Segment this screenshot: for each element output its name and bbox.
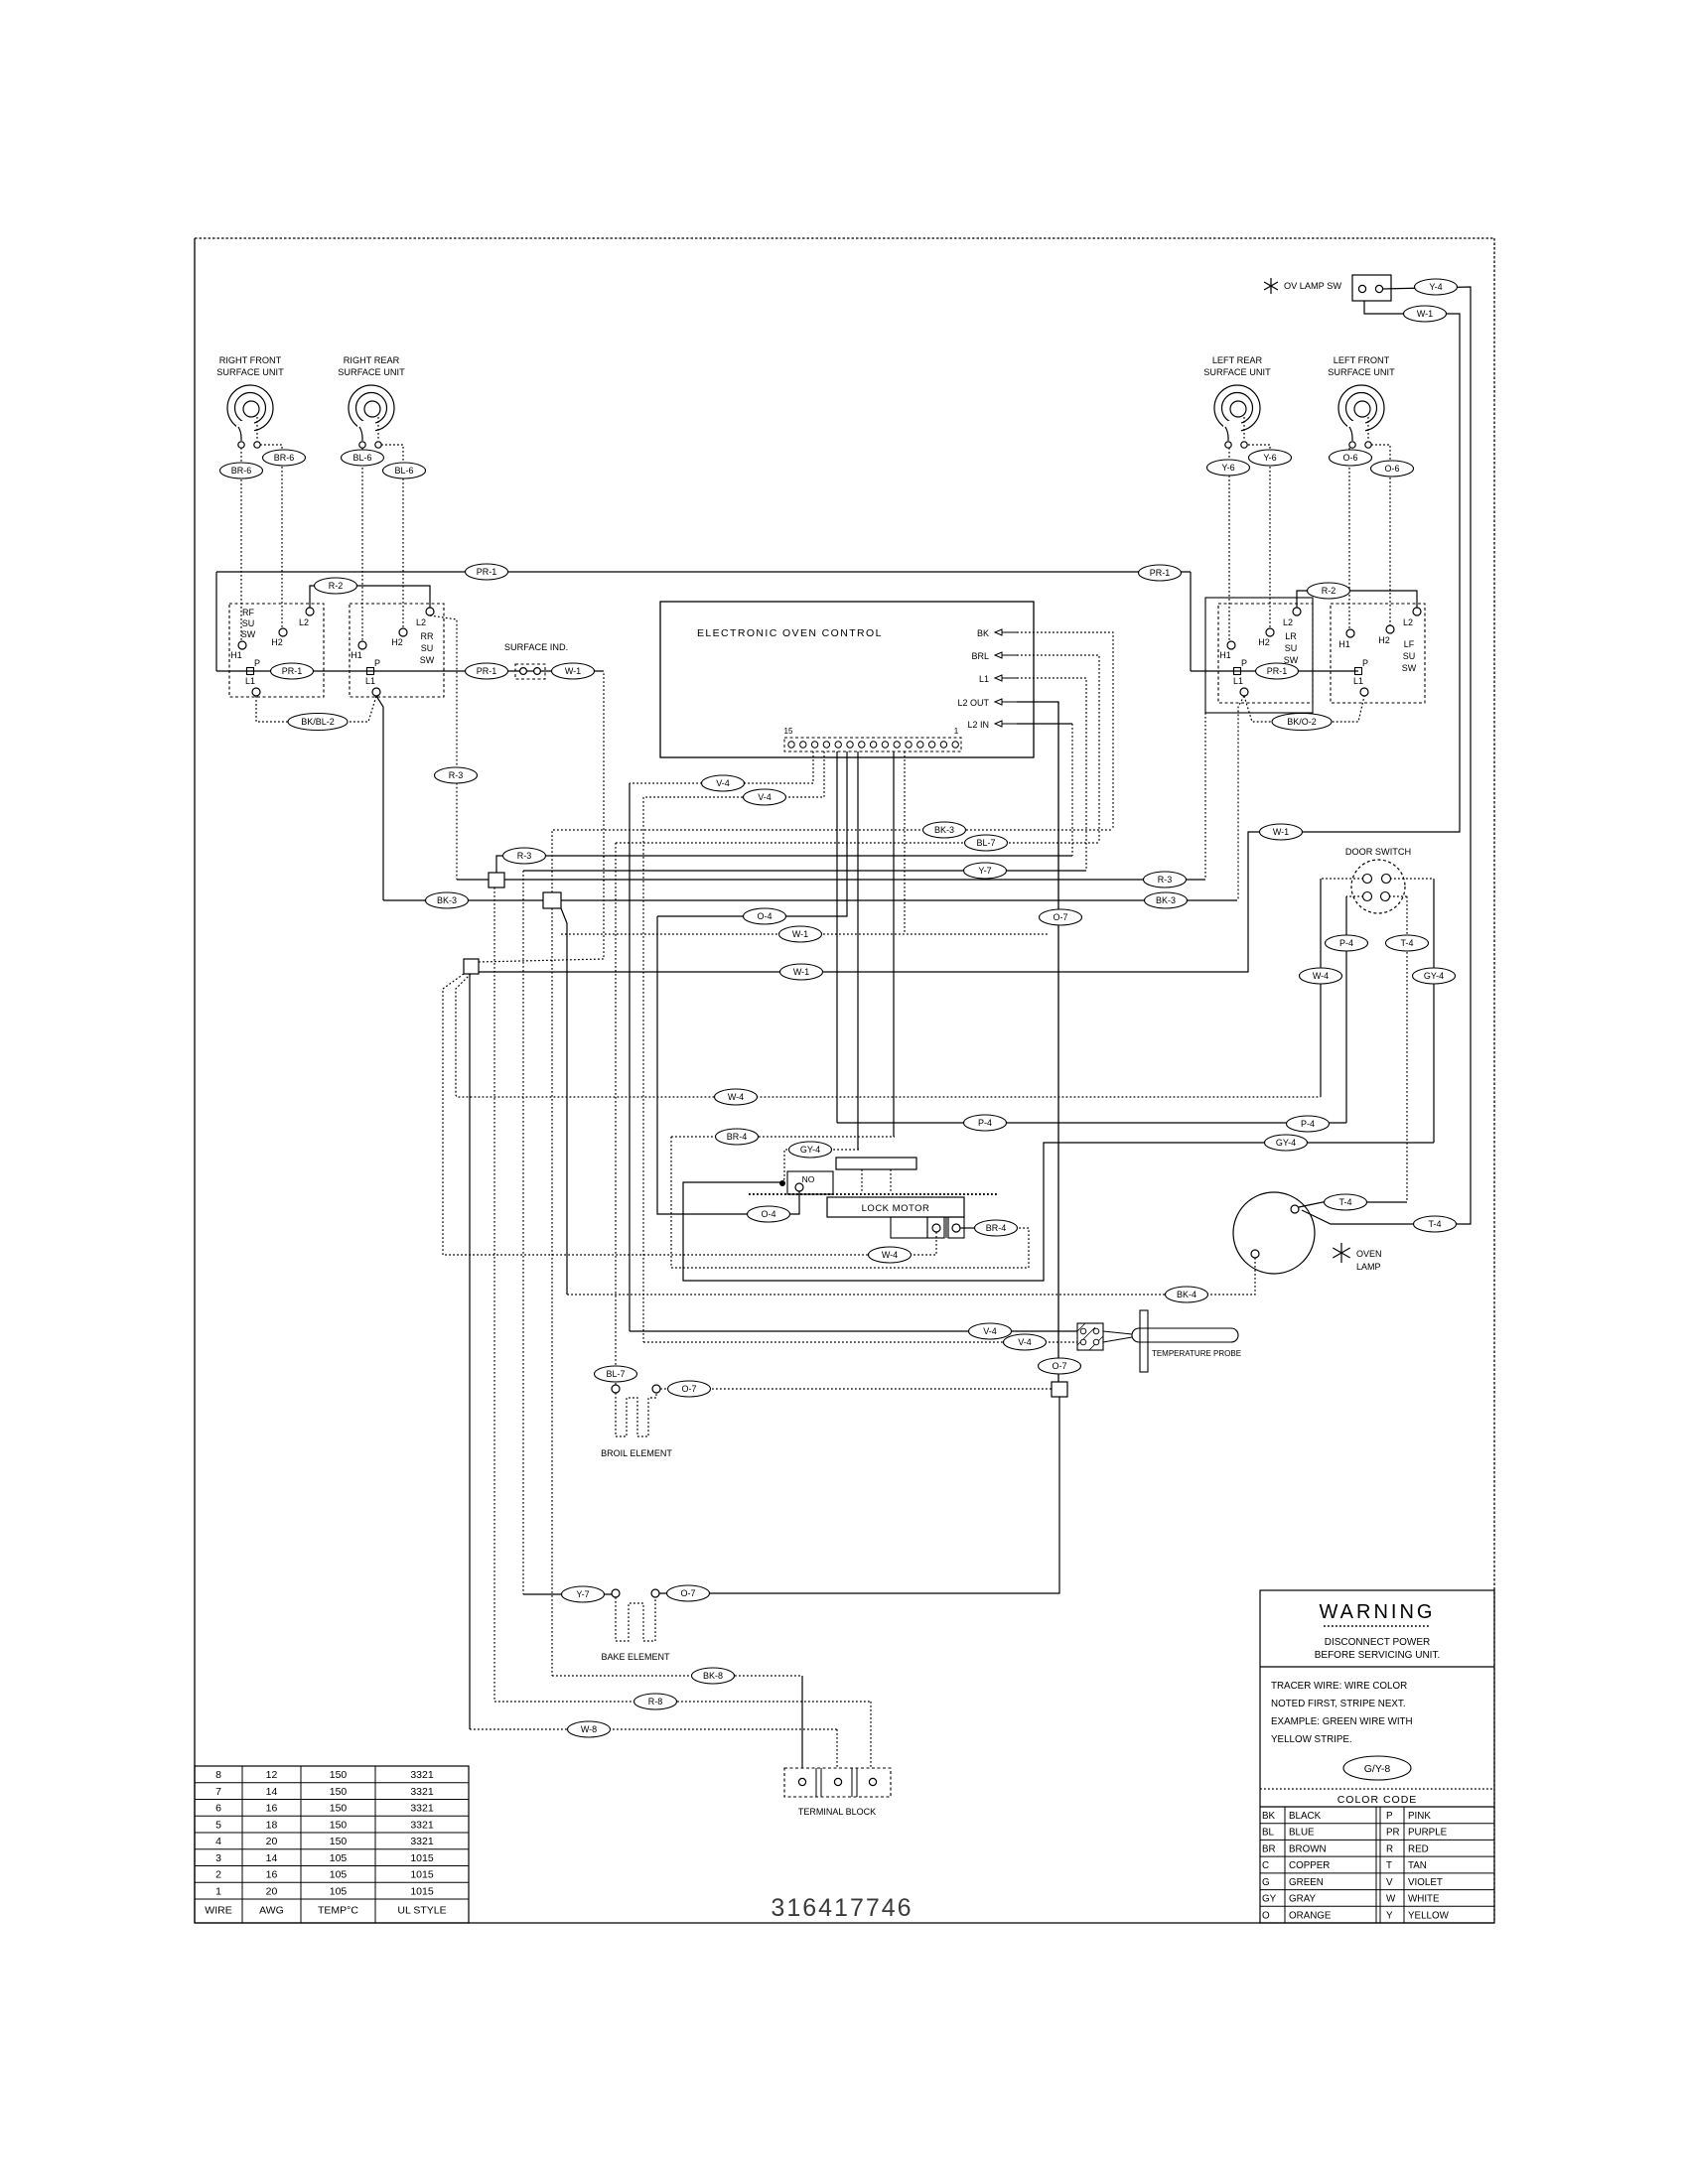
- oval PR-1: [271, 663, 314, 679]
- svg-text:LEFT FRONT: LEFT FRONT: [1334, 355, 1390, 365]
- svg-text:LR: LR: [1285, 631, 1297, 641]
- svg-text:COPPER: COPPER: [1289, 1860, 1330, 1871]
- svg-text:P-4: P-4: [978, 1118, 992, 1128]
- svg-text:GY-4: GY-4: [800, 1145, 820, 1155]
- svg-text:AWG: AWG: [259, 1905, 284, 1917]
- oval BK-3: [923, 822, 966, 838]
- svg-text:150: 150: [330, 1819, 348, 1831]
- oval BK/BL-2: [288, 714, 348, 731]
- svg-text:WARNING: WARNING: [1320, 1601, 1436, 1623]
- svg-text:SW: SW: [241, 629, 256, 639]
- broil element: [601, 1385, 672, 1458]
- svg-text:12: 12: [266, 1769, 278, 1781]
- wire Y-7 vertical: [522, 871, 524, 1594]
- svg-text:1: 1: [215, 1885, 221, 1897]
- oval W-4: [1300, 968, 1342, 984]
- svg-text:W-8: W-8: [581, 1724, 597, 1734]
- svg-text:V: V: [1386, 1877, 1393, 1888]
- wire O-4 strip drop: [657, 751, 847, 916]
- svg-text:105: 105: [330, 1885, 348, 1897]
- svg-text:BK: BK: [1262, 1811, 1276, 1822]
- svg-text:PR-1: PR-1: [477, 666, 497, 676]
- svg-text:O-4: O-4: [757, 911, 772, 921]
- oval BR-4: [975, 1220, 1018, 1236]
- wire V-4b strip drop: [643, 751, 824, 797]
- svg-text:BEFORE SERVICING UNIT.: BEFORE SERVICING UNIT.: [1315, 1650, 1441, 1661]
- wire P-4 horizontal: [837, 1122, 1346, 1124]
- svg-text:ORANGE: ORANGE: [1289, 1910, 1332, 1921]
- wire BK-3 horizontal: [383, 899, 1237, 901]
- svg-text:W-1: W-1: [1273, 827, 1289, 837]
- LR SU SW outer box: [1205, 598, 1313, 713]
- electronic oven control box: [660, 602, 1034, 757]
- svg-text:RIGHT FRONT: RIGHT FRONT: [219, 355, 282, 365]
- svg-text:H2: H2: [1378, 635, 1390, 645]
- svg-text:SW: SW: [1402, 663, 1417, 673]
- svg-text:T: T: [1386, 1860, 1392, 1871]
- oval BK-4: [1166, 1287, 1208, 1302]
- svg-text:BAKE ELEMENT: BAKE ELEMENT: [601, 1652, 670, 1662]
- svg-text:YELLOW STRIPE.: YELLOW STRIPE.: [1271, 1734, 1352, 1745]
- svg-text:H1: H1: [351, 650, 362, 660]
- svg-text:PR-1: PR-1: [477, 567, 497, 577]
- oval O-6: [1371, 461, 1414, 477]
- oval R-3: [503, 848, 546, 864]
- wire T-4 lamp: [1299, 1202, 1407, 1207]
- wire RF leads: [240, 448, 242, 640]
- svg-text:L2: L2: [416, 617, 426, 627]
- svg-text:BRL: BRL: [971, 651, 989, 661]
- svg-text:L1: L1: [245, 676, 255, 686]
- svg-text:RF: RF: [242, 608, 254, 617]
- svg-text:H1: H1: [1338, 639, 1350, 649]
- svg-text:O-7: O-7: [1052, 1361, 1066, 1371]
- svg-text:BK/O-2: BK/O-2: [1287, 717, 1317, 727]
- svg-text:W: W: [1386, 1894, 1396, 1905]
- oval O-7: [668, 1381, 711, 1397]
- svg-text:BR-4: BR-4: [986, 1223, 1007, 1233]
- svg-text:V-4: V-4: [716, 778, 730, 788]
- LR SU SW box: [1218, 604, 1313, 703]
- svg-text:SURFACE UNIT: SURFACE UNIT: [338, 367, 405, 377]
- svg-text:BROIL ELEMENT: BROIL ELEMENT: [601, 1448, 672, 1458]
- oval O-7: [1039, 1358, 1081, 1374]
- wire W-8: [470, 1728, 837, 1730]
- wire W-4 lock drop: [443, 974, 464, 1255]
- wire BK-4 vertical: [561, 908, 567, 1295]
- svg-text:O: O: [1262, 1910, 1270, 1921]
- svg-text:150: 150: [330, 1786, 348, 1798]
- oval Y-6: [1249, 450, 1292, 466]
- oval BL-6: [342, 450, 384, 466]
- wire gauge table: [195, 1766, 469, 1923]
- wire P line left: [216, 670, 604, 672]
- surface indicator: [504, 642, 568, 679]
- oval BK-3: [1145, 892, 1188, 908]
- temperature probe: [1077, 1310, 1241, 1372]
- svg-text:3321: 3321: [410, 1769, 434, 1781]
- svg-text:TEMPERATURE PROBE: TEMPERATURE PROBE: [1152, 1349, 1241, 1358]
- svg-text:BK/BL-2: BK/BL-2: [301, 717, 335, 727]
- svg-text:1015: 1015: [410, 1869, 434, 1881]
- oval BR-6: [263, 450, 306, 466]
- oval R-2: [1308, 583, 1350, 599]
- junction splice BK: [543, 892, 561, 908]
- svg-text:16: 16: [266, 1803, 278, 1815]
- svg-text:W-4: W-4: [728, 1092, 744, 1102]
- oval PR-1: [466, 564, 508, 580]
- wire V-4 probe top: [629, 783, 631, 1331]
- wire L1 pin: [1017, 678, 1086, 871]
- svg-text:R: R: [1386, 1843, 1393, 1854]
- svg-text:G: G: [1262, 1877, 1270, 1888]
- oval V-4: [702, 775, 745, 791]
- wire V-4 strip drop: [630, 751, 813, 783]
- svg-text:P: P: [1241, 658, 1247, 668]
- oval W-1: [779, 926, 822, 942]
- svg-text:YELLOW: YELLOW: [1408, 1910, 1450, 1921]
- oval Y-7: [964, 863, 1007, 879]
- svg-text:O-7: O-7: [1053, 912, 1067, 922]
- wire BR-4 strip drop: [893, 751, 895, 1137]
- page border: [195, 237, 1494, 239]
- svg-text:H2: H2: [271, 637, 283, 647]
- svg-text:W-1: W-1: [1417, 309, 1433, 319]
- oval GY-4: [1265, 1135, 1308, 1151]
- svg-text:20: 20: [266, 1885, 278, 1897]
- wire BK pin to BK-3: [1017, 632, 1113, 830]
- wire P-4 door switch: [1346, 895, 1363, 897]
- wire BK/O-2: [1244, 696, 1364, 722]
- EOC pin L2 OUT: [957, 698, 1017, 708]
- wire RR leads: [361, 448, 363, 640]
- wire R-2 right: [1297, 591, 1417, 608]
- wire W-8 vertical: [469, 974, 471, 1729]
- svg-text:15: 15: [784, 727, 793, 736]
- svg-text:BROWN: BROWN: [1289, 1843, 1327, 1854]
- wire R-3 left vertical: [430, 615, 457, 880]
- svg-text:PR-1: PR-1: [1267, 666, 1288, 676]
- svg-text:BR-6: BR-6: [231, 466, 252, 476]
- lock motor body: [827, 1197, 964, 1217]
- svg-text:TRACER WIRE: WIRE COLOR: TRACER WIRE: WIRE COLOR: [1271, 1681, 1407, 1692]
- svg-text:T-4: T-4: [1338, 1197, 1351, 1207]
- oval R-3: [435, 767, 478, 783]
- svg-text:L1: L1: [979, 674, 989, 684]
- svg-text:P-4: P-4: [1339, 938, 1353, 948]
- junction splice W: [464, 959, 479, 974]
- svg-text:SURFACE IND.: SURFACE IND.: [504, 642, 568, 652]
- wire Y-7 horizontal: [523, 870, 1086, 872]
- svg-text:OV LAMP SW: OV LAMP SW: [1284, 281, 1341, 291]
- oval P-4: [1326, 935, 1368, 951]
- oval PR-1: [1139, 565, 1182, 581]
- svg-text:Y-7: Y-7: [978, 866, 991, 876]
- oval BL-7: [965, 835, 1008, 851]
- wire W-4 door drop: [456, 974, 1321, 1097]
- svg-text:18: 18: [266, 1819, 278, 1831]
- svg-text:Y-4: Y-4: [1429, 282, 1442, 292]
- oval Y-4: [1415, 279, 1458, 295]
- svg-text:V-4: V-4: [983, 1326, 997, 1336]
- oval W-8: [568, 1721, 611, 1737]
- lock motor top plate: [836, 1158, 916, 1169]
- wire BK-3 upper horizontal: [552, 830, 1113, 892]
- svg-text:H1: H1: [230, 650, 242, 660]
- oval G/Y-8: [1343, 1756, 1411, 1780]
- wire R-3 upper horizontal: [496, 856, 1072, 873]
- svg-text:DOOR SWITCH: DOOR SWITCH: [1345, 847, 1411, 857]
- oval T-4: [1325, 1194, 1367, 1210]
- svg-text:BK-8: BK-8: [703, 1671, 723, 1681]
- svg-text:150: 150: [330, 1836, 348, 1847]
- svg-text:L1: L1: [1353, 676, 1363, 686]
- svg-text:R-3: R-3: [449, 770, 464, 780]
- oval GY-4: [789, 1142, 832, 1158]
- svg-text:316417746: 316417746: [771, 1894, 913, 1922]
- wire O-7 broil: [660, 1388, 1052, 1390]
- wire PR-1 top run: [216, 571, 1191, 573]
- terminal block: [784, 1768, 891, 1817]
- wire GY-4 door run: [683, 1143, 1434, 1281]
- svg-text:R-8: R-8: [648, 1697, 663, 1706]
- svg-text:3321: 3321: [410, 1803, 434, 1815]
- svg-text:2: 2: [215, 1869, 221, 1881]
- EOC pin BRL: [971, 651, 1017, 661]
- oval R-8: [634, 1694, 677, 1709]
- tracer wire note: [1271, 1681, 1413, 1745]
- wire GY-4 strip drop: [857, 751, 859, 1150]
- svg-text:L2 OUT: L2 OUT: [957, 698, 989, 708]
- junction O-7: [1052, 1382, 1067, 1397]
- svg-text:5: 5: [215, 1819, 221, 1831]
- wire BR-4 return: [671, 1137, 1029, 1268]
- oval T-4: [1386, 935, 1429, 951]
- svg-text:BK: BK: [977, 628, 989, 638]
- svg-text:8: 8: [215, 1769, 221, 1781]
- svg-text:SU: SU: [421, 643, 434, 653]
- svg-text:BK-3: BK-3: [1156, 895, 1176, 905]
- wire T-4 door switch: [1389, 895, 1407, 897]
- wire R-2 left: [310, 586, 430, 608]
- wire LF leads: [1348, 448, 1350, 629]
- svg-text:105: 105: [330, 1852, 348, 1864]
- warning box: [1260, 1590, 1494, 1923]
- oven lamp: [1233, 1192, 1382, 1274]
- svg-text:V-4: V-4: [758, 792, 772, 802]
- svg-text:L2 IN: L2 IN: [967, 720, 989, 730]
- svg-text:Y: Y: [1386, 1910, 1393, 1921]
- oval BK-8: [692, 1668, 735, 1684]
- wire BRL pin to BL-7: [1017, 655, 1099, 843]
- svg-text:R-3: R-3: [517, 851, 532, 861]
- svg-text:BL-7: BL-7: [606, 1369, 625, 1379]
- svg-text:SURFACE UNIT: SURFACE UNIT: [216, 367, 284, 377]
- wire O-4 run: [657, 916, 799, 1214]
- svg-text:O-7: O-7: [681, 1384, 696, 1394]
- oval BK-3: [426, 892, 469, 908]
- EOC pin L1: [979, 674, 1017, 684]
- svg-text:PR-1: PR-1: [1150, 568, 1171, 578]
- oval T-4: [1414, 1216, 1457, 1232]
- svg-text:H1: H1: [1219, 650, 1231, 660]
- svg-text:4: 4: [215, 1836, 221, 1847]
- oval Y-7: [562, 1586, 605, 1602]
- svg-text:RR: RR: [421, 631, 434, 641]
- svg-text:DISCONNECT POWER: DISCONNECT POWER: [1325, 1637, 1431, 1648]
- svg-text:ELECTRONIC OVEN CONTROL: ELECTRONIC OVEN CONTROL: [697, 627, 883, 639]
- svg-text:GREEN: GREEN: [1289, 1877, 1324, 1888]
- svg-text:L1: L1: [1233, 676, 1243, 686]
- svg-text:G/Y-8: G/Y-8: [1364, 1763, 1391, 1775]
- bake element: [601, 1589, 670, 1662]
- svg-text:BK-4: BK-4: [1177, 1290, 1196, 1299]
- svg-text:R-3: R-3: [1158, 875, 1173, 885]
- svg-text:P: P: [254, 658, 260, 668]
- svg-text:O-7: O-7: [680, 1588, 695, 1598]
- svg-text:W-1: W-1: [793, 967, 809, 977]
- svg-text:BL-6: BL-6: [352, 453, 371, 463]
- svg-text:L2: L2: [299, 617, 309, 627]
- wire P-4 strip drop: [836, 751, 838, 1123]
- junction splice R: [489, 873, 504, 887]
- wire V-4 probe bottom: [642, 797, 644, 1342]
- svg-text:20: 20: [266, 1836, 278, 1847]
- oval BR-4: [716, 1129, 759, 1145]
- svg-text:SW: SW: [420, 655, 435, 665]
- svg-text:PR-1: PR-1: [282, 666, 303, 676]
- svg-text:3321: 3321: [410, 1836, 434, 1847]
- oval W-1: [552, 663, 595, 679]
- oval O-7: [1040, 909, 1082, 925]
- NO switch: [779, 1171, 833, 1194]
- svg-text:PURPLE: PURPLE: [1408, 1828, 1448, 1839]
- wire BK-3 to L1 LR: [1238, 696, 1244, 900]
- oval W-1: [1404, 306, 1447, 322]
- wire L2 OUT: [1017, 702, 1058, 1382]
- svg-text:WHITE: WHITE: [1408, 1894, 1440, 1905]
- svg-text:UL STYLE: UL STYLE: [397, 1905, 446, 1917]
- svg-text:PINK: PINK: [1408, 1811, 1431, 1822]
- svg-text:BLACK: BLACK: [1289, 1811, 1322, 1822]
- wire LR leads: [1228, 448, 1230, 640]
- svg-text:L2: L2: [1283, 617, 1293, 627]
- svg-text:BL-7: BL-7: [976, 838, 995, 848]
- wire W-1b strip drop: [904, 751, 906, 934]
- svg-text:SURFACE UNIT: SURFACE UNIT: [1328, 367, 1395, 377]
- oval BR-6: [220, 463, 263, 478]
- wire BK-4: [567, 1258, 1255, 1295]
- color code table: [1260, 1789, 1494, 1923]
- svg-text:BR-4: BR-4: [727, 1132, 748, 1142]
- svg-text:6: 6: [215, 1803, 221, 1815]
- svg-text:EXAMPLE: GREEN WIRE WITH: EXAMPLE: GREEN WIRE WITH: [1271, 1716, 1413, 1727]
- svg-text:1015: 1015: [410, 1885, 434, 1897]
- svg-text:16: 16: [266, 1869, 278, 1881]
- svg-text:W-4: W-4: [882, 1250, 898, 1260]
- svg-text:3321: 3321: [410, 1786, 434, 1798]
- LR unit coil: [1203, 355, 1271, 448]
- lock motor bar: [749, 1193, 998, 1195]
- svg-text:LOCK MOTOR: LOCK MOTOR: [862, 1203, 930, 1214]
- oval BL-7: [595, 1366, 637, 1382]
- svg-text:V-4: V-4: [1018, 1337, 1032, 1347]
- svg-text:Y-7: Y-7: [576, 1589, 589, 1599]
- svg-text:BK-3: BK-3: [934, 825, 954, 835]
- wire GY-4 to NO: [782, 1150, 859, 1183]
- EOC pin BK: [977, 628, 1017, 638]
- oval P-4: [964, 1115, 1007, 1131]
- oval V-4: [969, 1323, 1012, 1339]
- svg-text:150: 150: [330, 1769, 348, 1781]
- wire R-8: [494, 1701, 871, 1703]
- svg-text:O-4: O-4: [761, 1209, 775, 1219]
- svg-text:LEFT REAR: LEFT REAR: [1212, 355, 1263, 365]
- svg-text:BLUE: BLUE: [1289, 1828, 1315, 1839]
- svg-text:GRAY: GRAY: [1289, 1894, 1317, 1905]
- svg-text:T-4: T-4: [1400, 938, 1413, 948]
- OV LAMP SW: [1264, 275, 1391, 301]
- svg-text:H2: H2: [1258, 637, 1270, 647]
- wire P line right: [1191, 670, 1358, 672]
- oval R-2: [315, 578, 357, 594]
- svg-text:P: P: [1362, 658, 1368, 668]
- wire R-3 junction horizontal: [457, 879, 1205, 881]
- svg-text:GY: GY: [1262, 1894, 1277, 1905]
- oval BL-6: [383, 463, 426, 478]
- svg-text:VIOLET: VIOLET: [1408, 1877, 1443, 1888]
- oval P-4: [1287, 1116, 1330, 1132]
- wire R-3 to LR box: [1204, 713, 1206, 880]
- svg-text:T-4: T-4: [1428, 1219, 1441, 1229]
- svg-text:W-1: W-1: [792, 929, 808, 939]
- wire W-1b horizontal: [561, 933, 1049, 935]
- wire BK/BL-2: [256, 696, 376, 722]
- oval O-7: [667, 1585, 710, 1601]
- svg-text:14: 14: [266, 1786, 278, 1798]
- svg-text:BL-6: BL-6: [394, 466, 413, 476]
- svg-text:LF: LF: [1404, 639, 1415, 649]
- svg-text:L2: L2: [1403, 617, 1413, 627]
- lock motor lower boxes: [891, 1217, 927, 1238]
- svg-text:SU: SU: [1285, 643, 1298, 653]
- svg-text:150: 150: [330, 1803, 348, 1815]
- svg-text:BR-6: BR-6: [274, 453, 295, 463]
- oval PR-1: [1256, 663, 1299, 679]
- svg-text:L1: L1: [365, 676, 375, 686]
- svg-text:NO: NO: [802, 1174, 815, 1184]
- wire R-8 vertical: [493, 887, 495, 1702]
- svg-text:TAN: TAN: [1408, 1860, 1427, 1871]
- svg-text:WIRE: WIRE: [205, 1905, 231, 1917]
- wire BK-8: [552, 1675, 802, 1677]
- wire Y-4: [1302, 287, 1471, 1224]
- svg-text:W-1: W-1: [565, 666, 581, 676]
- oval V-4: [744, 789, 786, 805]
- svg-text:P: P: [374, 658, 380, 668]
- svg-text:P: P: [1386, 1811, 1393, 1822]
- svg-text:COLOR CODE: COLOR CODE: [1337, 1794, 1418, 1806]
- svg-text:H2: H2: [391, 637, 403, 647]
- svg-text:SU: SU: [1403, 651, 1416, 661]
- oval PR-1: [466, 663, 508, 679]
- svg-text:GY-4: GY-4: [1276, 1138, 1296, 1148]
- RR unit coil: [338, 355, 405, 448]
- svg-text:O-6: O-6: [1384, 464, 1399, 474]
- oval GY-4: [1413, 968, 1456, 984]
- svg-text:Y-6: Y-6: [1221, 463, 1234, 473]
- RF SU SW box: [229, 604, 324, 697]
